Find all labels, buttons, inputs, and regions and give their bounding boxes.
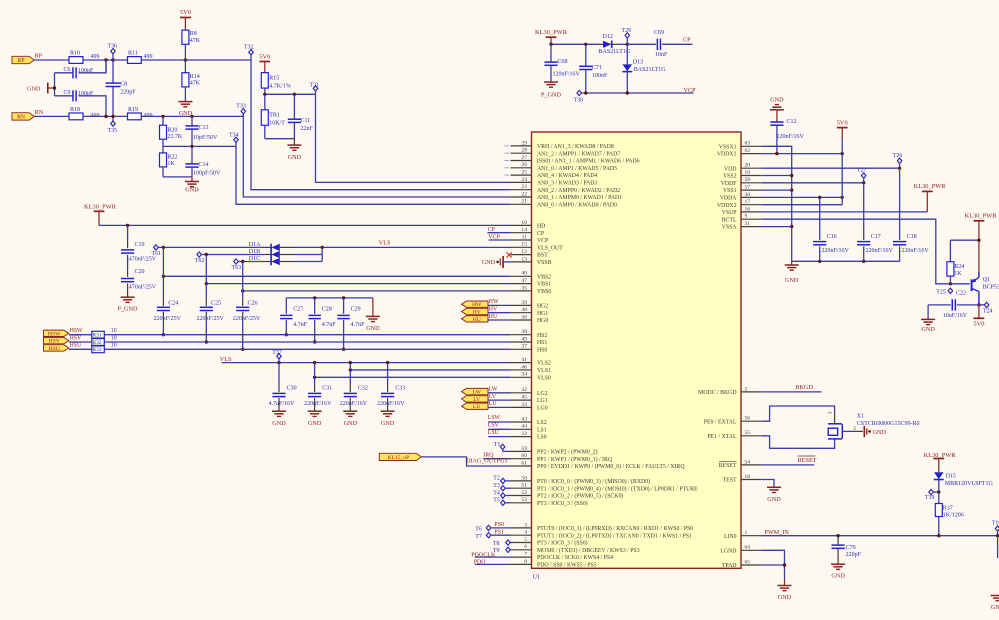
- svg-text:27: 27: [521, 155, 527, 161]
- capacitor C9: [54, 73, 56, 96]
- junction RN-C9: [104, 115, 107, 118]
- svg-text:220nF/25V: 220nF/25V: [154, 316, 182, 322]
- resistor R10: [69, 57, 83, 64]
- svg-text:LIN0: LIN0: [724, 534, 737, 540]
- capacitor C13: [191, 116, 193, 126]
- svg-text:1K: 1K: [954, 271, 962, 277]
- svg-text:4.7nF: 4.7nF: [322, 322, 337, 328]
- svg-text:220nF/16V: 220nF/16V: [304, 401, 332, 407]
- wire D1A cathode to VLS: [295, 246, 511, 248]
- capacitor C70: [836, 534, 839, 537]
- svg-text:11: 11: [522, 234, 528, 240]
- capacitor C68: [550, 44, 552, 62]
- wire T31 node to pin 24: [316, 94, 511, 182]
- power ground P_GND below C68: [544, 81, 558, 83]
- port LW: [462, 388, 489, 394]
- diode D13: [626, 44, 628, 64]
- junction RN-C8: [111, 115, 114, 118]
- svg-text:D1C: D1C: [249, 256, 260, 262]
- svg-text:CP: CP: [537, 231, 544, 237]
- svg-text:R31: R31: [93, 333, 102, 339]
- svg-text:C16: C16: [827, 234, 837, 240]
- svg-text:39: 39: [521, 300, 527, 306]
- U1 left pin stubs, numbers and names: [511, 145, 532, 147]
- svg-text:40: 40: [521, 271, 527, 277]
- wire LSU to U1: [488, 436, 510, 438]
- test point T61: [154, 245, 159, 250]
- svg-text:T26: T26: [893, 153, 903, 159]
- wire HSV to resistor: [69, 341, 92, 343]
- svg-text:4.7uF/16V: 4.7uF/16V: [269, 401, 296, 407]
- svg-text:12: 12: [521, 249, 527, 255]
- test point T30: [577, 90, 582, 95]
- resistor R11: [128, 57, 142, 64]
- svg-text:RN: RN: [35, 109, 44, 116]
- svg-text:T7: T7: [475, 534, 482, 540]
- svg-text:AN0_1 / AMPM0 / KWAD1 / PAD1: AN0_1 / AMPM0 / KWAD1 / PAD1: [537, 195, 622, 201]
- svg-text:HU: HU: [489, 314, 498, 320]
- svg-text:BAS21LT1G: BAS21LT1G: [599, 49, 631, 55]
- svg-text:LU: LU: [489, 401, 498, 407]
- svg-text:KL30_PWR: KL30_PWR: [84, 204, 117, 211]
- svg-text:D12: D12: [603, 34, 613, 40]
- svg-text:25: 25: [521, 170, 527, 176]
- svg-text:GND: GND: [482, 259, 496, 266]
- svg-text:LSU: LSU: [488, 430, 500, 436]
- svg-text:HSW: HSW: [70, 328, 83, 334]
- svg-text:1: 1: [745, 530, 748, 536]
- svg-text:KL30_PWR: KL30_PWR: [914, 183, 947, 190]
- junction RN-C13: [190, 115, 193, 118]
- svg-text:41: 41: [521, 357, 527, 363]
- svg-text:5V0: 5V0: [837, 120, 848, 127]
- wire RESET pin 54: [761, 464, 814, 466]
- svg-text:LS1: LS1: [537, 427, 547, 433]
- svg-text:C71: C71: [592, 65, 602, 71]
- svg-text:PP1 / KWP1 / (PWM0_1) / IRQ: PP1 / KWP1 / (PWM0_1) / IRQ: [537, 456, 613, 463]
- power port 5V0 below Q1: [978, 305, 980, 318]
- ground reference GND at C6/C9: [47, 83, 49, 94]
- wire diode cathode bus: [321, 247, 323, 261]
- svg-text:13: 13: [521, 256, 527, 262]
- svg-text:47K: 47K: [190, 81, 201, 87]
- resonator X1 body: [828, 423, 842, 425]
- svg-text:C17: C17: [871, 234, 881, 240]
- svg-text:10nF: 10nF: [655, 52, 668, 58]
- svg-text:GND: GND: [308, 420, 322, 427]
- wire VCP rail: [582, 92, 694, 94]
- wire HW to U1: [488, 304, 511, 306]
- svg-text:KL15_uP: KL15_uP: [387, 455, 409, 461]
- svg-text:47: 47: [521, 278, 527, 284]
- svg-text:D13: D13: [633, 60, 643, 66]
- svg-text:61: 61: [521, 460, 527, 466]
- svg-text:Q1: Q1: [983, 277, 990, 283]
- junction divider-C14: [190, 145, 193, 148]
- svg-text:44: 44: [521, 424, 527, 430]
- svg-text:PP2 / KWP2 / (PWM0_2): PP2 / KWP2 / (PWM0_2): [537, 449, 598, 456]
- resistor R20 divider: [162, 116, 164, 125]
- svg-text:AN0_0 / AMP0 / KWAD0 / PAD0: AN0_0 / AMP0 / KWAD0 / PAD0: [537, 202, 617, 208]
- capacitor C31: [314, 363, 316, 385]
- junction RP-R8: [184, 58, 187, 61]
- svg-text:C69: C69: [654, 30, 664, 36]
- svg-text:VSS1: VSS1: [723, 188, 737, 194]
- port HW: [462, 301, 489, 307]
- svg-text:T32: T32: [244, 44, 254, 50]
- test point T24: [979, 304, 984, 306]
- svg-text:T25: T25: [936, 289, 946, 295]
- svg-text:LG0: LG0: [537, 406, 548, 412]
- svg-text:GND: GND: [991, 604, 999, 611]
- svg-text:HG2: HG2: [537, 304, 548, 310]
- svg-text:10K/T: 10K/T: [269, 121, 285, 127]
- ground GND at pin 13 VSSB: [503, 261, 510, 263]
- wire R10 to R11: [83, 59, 128, 61]
- svg-text:HSW: HSW: [48, 331, 61, 337]
- wire HSW to resistor: [69, 334, 92, 336]
- svg-text:C30: C30: [287, 386, 297, 392]
- svg-text:C28: C28: [322, 307, 332, 313]
- wire HD rail to pin 10: [99, 224, 511, 226]
- svg-text:VLS0: VLS0: [537, 375, 551, 381]
- svg-text:T63: T63: [232, 265, 242, 271]
- svg-text:220nF/16V: 220nF/16V: [901, 248, 929, 254]
- svg-text:PT1 / IOC0_1 / (PWM0_4) / (MOS: PT1 / IOC0_1 / (PWM0_4) / (MOSI0) / (TXD…: [537, 485, 698, 492]
- svg-text:22nF: 22nF: [301, 126, 314, 132]
- svg-text:9: 9: [745, 214, 748, 220]
- wire PDOCLK to pin 7: [475, 556, 511, 558]
- capacitor C32: [349, 363, 351, 385]
- svg-text:KL30_PWR: KL30_PWR: [965, 212, 998, 219]
- port RP: [12, 56, 34, 63]
- svg-text:AN1_0 / AMP1 / KWAD5 / PAD5: AN1_0 / AMP1 / KWAD5 / PAD5: [537, 166, 617, 172]
- wire T34 to pin 21: [236, 146, 511, 204]
- svg-text:220nF/16V: 220nF/16V: [822, 248, 850, 254]
- svg-text:R22: R22: [167, 155, 177, 161]
- svg-text:R37: R37: [943, 505, 953, 511]
- svg-text:36: 36: [521, 314, 527, 320]
- svg-text:HSV: HSV: [49, 339, 60, 345]
- svg-text:C33: C33: [395, 386, 405, 392]
- svg-text:T35: T35: [108, 128, 118, 134]
- svg-text:R24: R24: [954, 264, 964, 270]
- wire VBS1 row: [206, 283, 510, 285]
- svg-text:LU: LU: [473, 404, 480, 410]
- wire R11 to T32 corner: [141, 60, 510, 190]
- svg-text:CSTCR6M00G15C99-R0: CSTCR6M00G15C99-R0: [857, 421, 920, 427]
- svg-text:PWM_IN: PWM_IN: [764, 529, 789, 536]
- svg-text:GND: GND: [344, 420, 358, 427]
- wire LGND TPAD to ground: [761, 550, 784, 579]
- ground GND below rail: [791, 261, 793, 264]
- diode D15: [934, 472, 944, 479]
- svg-text:C12: C12: [787, 119, 797, 125]
- svg-text:(SS0) / AN1_1 / AMPM1 / KWAD6: (SS0) / AN1_1 / AMPM1 / KWAD6 / PAD6: [537, 158, 640, 165]
- port LV: [462, 396, 489, 402]
- wire PDO to pin 8: [475, 563, 511, 565]
- svg-text:RESET: RESET: [798, 457, 817, 464]
- svg-text:C18: C18: [907, 234, 917, 240]
- wire VDDF row to T27 column: [761, 182, 863, 184]
- svg-text:10: 10: [111, 328, 117, 334]
- svg-text:28: 28: [521, 148, 527, 154]
- svg-text:VSS2: VSS2: [723, 174, 737, 180]
- svg-text:T27: T27: [857, 167, 867, 173]
- svg-text:BST: BST: [537, 253, 548, 259]
- svg-text:HV: HV: [473, 310, 481, 316]
- svg-text:TPAD: TPAD: [722, 563, 737, 569]
- wire divider mid: [162, 139, 164, 146]
- test point T19: [929, 489, 934, 494]
- wire VSSX1 to ground rail: [761, 146, 791, 261]
- svg-text:VDDF: VDDF: [721, 181, 738, 187]
- svg-text:C8: C8: [120, 82, 127, 88]
- svg-text:LS2: LS2: [537, 420, 547, 426]
- svg-text:C25: C25: [211, 300, 221, 306]
- svg-text:RN: RN: [17, 115, 26, 121]
- svg-text:4.7K/1%: 4.7K/1%: [269, 84, 291, 90]
- svg-text:18: 18: [745, 474, 751, 480]
- svg-text:TR1: TR1: [269, 113, 280, 119]
- wire R19 to T33 corner: [141, 116, 510, 197]
- svg-text:R33: R33: [93, 347, 102, 353]
- wire VLS row to pin 41: [222, 362, 511, 364]
- svg-text:GND: GND: [831, 572, 845, 579]
- svg-text:AN0_3 / KWAD3 / PAD3: AN0_3 / KWAD3 / PAD3: [537, 181, 597, 187]
- svg-text:220pF: 220pF: [120, 89, 136, 95]
- wire LSW to U1: [488, 421, 510, 423]
- svg-text:100pF: 100pF: [78, 68, 94, 74]
- svg-text:CP: CP: [683, 36, 691, 43]
- svg-text:2: 2: [745, 386, 748, 392]
- svg-text:C9: C9: [64, 90, 71, 96]
- port RN: [12, 113, 34, 120]
- ground GND below LGND: [784, 579, 786, 585]
- wire T29 to C69: [627, 43, 656, 45]
- svg-text:P_GND: P_GND: [541, 92, 561, 99]
- svg-text:PTUT0 / (IOC0_1) / (LP0RXD) /: PTUT0 / (IOC0_1) / (LP0RXD) / RXCAN0 / R…: [537, 525, 693, 532]
- wire RN to R18: [34, 115, 69, 117]
- wire EXTAL loop: [761, 406, 834, 421]
- svg-text:120nF/16V: 120nF/16V: [777, 134, 805, 140]
- svg-text:220nF/16V: 220nF/16V: [866, 248, 894, 254]
- svg-text:32: 32: [521, 431, 527, 437]
- wire VBS2 row: [163, 275, 510, 277]
- svg-text:52: 52: [521, 490, 527, 496]
- capacitor C6: [79, 60, 107, 73]
- wire LSV to U1: [488, 428, 510, 430]
- svg-text:LS0: LS0: [537, 435, 547, 441]
- svg-text:VLS1: VLS1: [537, 368, 551, 374]
- junction RN-R20: [161, 115, 164, 118]
- svg-text:C13: C13: [199, 125, 209, 131]
- svg-text:HSU: HSU: [49, 346, 60, 352]
- svg-text:62: 62: [745, 148, 751, 154]
- svg-text:R19: R19: [128, 107, 138, 113]
- no-connect X at pin 12 BST: [507, 252, 512, 257]
- diode D1A: [158, 246, 264, 248]
- ground GND bottom right corner: [991, 595, 999, 597]
- svg-text:C29: C29: [351, 307, 361, 313]
- svg-text:VDDX1: VDDX1: [717, 152, 737, 158]
- svg-text:R20: R20: [167, 127, 177, 133]
- resistor R24: [949, 240, 951, 262]
- svg-text:HSU: HSU: [70, 343, 82, 349]
- wire HSU row to U1: [104, 348, 510, 350]
- svg-text:54: 54: [745, 459, 751, 465]
- svg-text:LV: LV: [489, 394, 497, 400]
- wire VSS1 row: [761, 189, 791, 191]
- junction RP-C6: [104, 58, 107, 61]
- resistor R14: [184, 60, 186, 73]
- wire VDDA row: [761, 196, 842, 198]
- thermistor TR1: [264, 94, 266, 110]
- svg-text:38: 38: [521, 329, 527, 335]
- svg-text:HU: HU: [473, 317, 481, 323]
- svg-text:3: 3: [524, 522, 527, 528]
- wire RP junction down to C9 lead: [105, 60, 107, 73]
- svg-text:LSV: LSV: [488, 423, 500, 429]
- svg-text:15: 15: [521, 242, 527, 248]
- svg-text:HS0: HS0: [537, 347, 547, 353]
- resonator X1 pin 2 to GND: [842, 430, 852, 432]
- svg-text:46: 46: [521, 364, 527, 370]
- svg-text:C11: C11: [301, 118, 311, 124]
- wire LU to U1: [488, 406, 511, 408]
- diode D1B: [202, 254, 265, 256]
- svg-text:PT3 / IOC0_3 / (SS0): PT3 / IOC0_3 / (SS0): [537, 540, 588, 547]
- svg-text:PE0 / EXTAL: PE0 / EXTAL: [704, 419, 737, 425]
- svg-text:LV: LV: [473, 397, 480, 403]
- ground GND below TR1/C11: [293, 139, 295, 145]
- svg-text:VCP: VCP: [537, 238, 548, 244]
- wire XTAL loop: [761, 436, 834, 449]
- capacitor C27: [285, 298, 287, 314]
- svg-text:59: 59: [521, 446, 527, 452]
- svg-text:60: 60: [521, 453, 527, 459]
- svg-text:AN0_2 / AMPP0 / KWAD2 / PAD2: AN0_2 / AMPP0 / KWAD2 / PAD2: [537, 188, 620, 194]
- svg-text:VLS2: VLS2: [537, 361, 551, 367]
- svg-text:R15: R15: [269, 76, 279, 82]
- resistor R22: [162, 146, 164, 153]
- wire HU to U1: [488, 319, 511, 321]
- port HV: [462, 308, 489, 314]
- svg-text:T5: T5: [493, 498, 500, 504]
- svg-text:48: 48: [521, 307, 527, 313]
- svg-text:T8: T8: [493, 541, 500, 547]
- svg-text:C24: C24: [168, 300, 178, 306]
- svg-text:2: 2: [853, 426, 856, 432]
- wire KL30 to R24 tee: [950, 239, 979, 241]
- ground GND below C30: [272, 410, 286, 412]
- wire BKGD pin 2: [761, 391, 821, 393]
- svg-text:VDD: VDD: [724, 166, 737, 172]
- svg-text:HS2: HS2: [537, 333, 547, 339]
- wire VDDX2 row: [761, 204, 842, 206]
- svg-text:C27: C27: [293, 307, 303, 313]
- svg-text:4.7nF: 4.7nF: [351, 322, 366, 328]
- svg-text:PP0 / EVDD1 / KWP0 / (PWM0_0): PP0 / EVDD1 / KWP0 / (PWM0_0) / ECLK / F…: [537, 463, 685, 470]
- svg-text:4: 4: [524, 530, 527, 536]
- wire LV to U1: [488, 399, 511, 401]
- svg-text:37: 37: [521, 344, 527, 350]
- capacitor C11: [293, 93, 296, 96]
- wire PWM_IN rail: [761, 535, 999, 537]
- capacitor C71: [585, 44, 587, 66]
- svg-text:8: 8: [524, 559, 527, 565]
- svg-text:D1A: D1A: [249, 242, 261, 248]
- transistor Q1 BCP53: [971, 279, 973, 291]
- svg-text:51: 51: [521, 483, 527, 489]
- svg-text:LW: LW: [473, 390, 482, 396]
- wire TEST pin 18 to ground: [761, 480, 774, 488]
- capacitor C26 bootstrap: [242, 262, 244, 291]
- svg-text:AN1_2 / AMPP1 / KWAD7 / PAD7: AN1_2 / AMPP1 / KWAD7 / PAD7: [537, 151, 620, 157]
- wire LW to U1: [488, 392, 511, 394]
- svg-text:56: 56: [745, 416, 751, 422]
- svg-text:10pF/50V: 10pF/50V: [193, 135, 218, 141]
- diode D1C: [238, 261, 264, 263]
- svg-text:MODC / BKGD: MODC / BKGD: [698, 390, 736, 396]
- svg-text:VCP: VCP: [684, 87, 697, 94]
- capacitor C17: [863, 183, 865, 240]
- ground GND below C70: [837, 557, 839, 564]
- wire IRQ to pin 60: [483, 458, 510, 460]
- svg-text:C26: C26: [248, 300, 258, 306]
- svg-text:HV: HV: [489, 307, 498, 313]
- svg-text:57: 57: [745, 185, 751, 191]
- svg-text:R10: R10: [70, 51, 80, 57]
- test point T62: [197, 252, 202, 257]
- svg-text:5V0: 5V0: [180, 9, 191, 16]
- svg-text:63: 63: [745, 141, 751, 147]
- svg-text:LGND: LGND: [720, 548, 736, 554]
- svg-text:VLS: VLS: [379, 240, 391, 247]
- resistor R32 10 ohm: [92, 339, 105, 346]
- capacitor C24 bootstrap: [162, 247, 164, 276]
- svg-text:30: 30: [745, 192, 751, 198]
- svg-text:5V0: 5V0: [973, 320, 984, 327]
- svg-text:X1: X1: [857, 414, 864, 420]
- svg-text:55: 55: [745, 430, 751, 436]
- svg-text:HW: HW: [489, 299, 499, 305]
- svg-text:49: 49: [521, 336, 527, 342]
- op-amp U1 microcontroller body: [532, 132, 742, 568]
- wire VSSA row: [761, 226, 791, 228]
- port HSW: [44, 330, 69, 336]
- test point T63: [234, 259, 239, 264]
- capacitor C19: [127, 225, 129, 240]
- resistor R33 10 ohm: [92, 346, 105, 353]
- svg-text:C19: C19: [135, 242, 145, 248]
- wire PS0 to pin 3: [491, 527, 511, 529]
- svg-text:GND: GND: [185, 186, 199, 193]
- svg-text:470nF/25V: 470nF/25V: [129, 284, 157, 290]
- port HSV: [44, 337, 69, 343]
- svg-text:C6: C6: [64, 67, 71, 73]
- svg-text:220pF: 220pF: [846, 552, 862, 558]
- capacitor C69: [656, 39, 658, 50]
- capacitor C22: [928, 304, 951, 306]
- svg-text:DIAG_OUTPUT: DIAG_OUTPUT: [466, 458, 508, 464]
- svg-text:GND: GND: [27, 85, 41, 92]
- capacitor C29: [343, 298, 345, 314]
- svg-text:35: 35: [521, 285, 527, 291]
- svg-text:5V0: 5V0: [259, 54, 270, 61]
- svg-text:HD: HD: [537, 224, 545, 230]
- svg-text:6: 6: [524, 544, 527, 550]
